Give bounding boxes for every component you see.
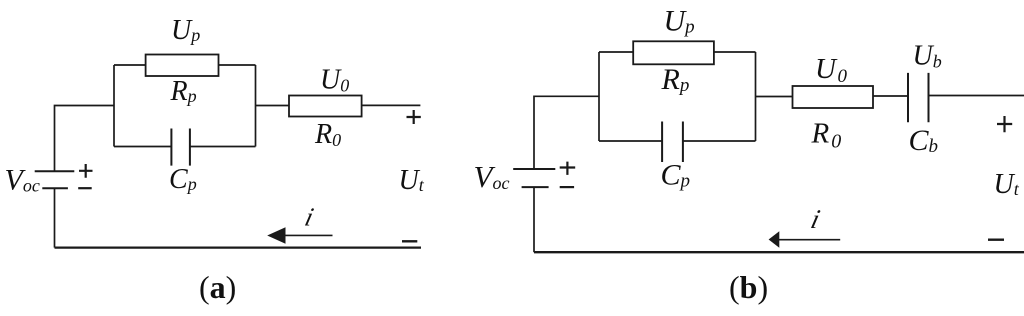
label Ut (a) bbox=[399, 165, 425, 196]
label Up (b) bbox=[664, 4, 695, 37]
label Cp (a) bbox=[169, 164, 197, 195]
wire: R0 to positive terminal (a) bbox=[362, 104, 421, 106]
label Rp (b) bbox=[661, 63, 690, 96]
capacitor Cp (a) bbox=[171, 129, 190, 166]
svg-text:Ut: Ut bbox=[399, 165, 425, 196]
svg-text:Voc: Voc bbox=[474, 159, 510, 194]
battery minus sign (b) bbox=[560, 186, 574, 188]
svg-text:Cp: Cp bbox=[169, 164, 197, 195]
bottom rail wire (a) bbox=[55, 247, 422, 249]
wire: battery top lead to node (b) bbox=[534, 96, 599, 169]
RC block right vertical wire (b) bbox=[755, 52, 757, 141]
svg-text:(a): (a) bbox=[199, 269, 236, 305]
wire: R0 to Cb (b) bbox=[873, 95, 908, 97]
label i (b) bbox=[808, 204, 823, 234]
bottom rail wire (b) bbox=[534, 251, 1024, 253]
terminal plus sign (b) bbox=[997, 116, 1012, 132]
svg-text:U0: U0 bbox=[815, 53, 847, 87]
label Cb (b) bbox=[909, 124, 939, 157]
battery plus sign (a) bbox=[79, 164, 93, 178]
battery plus sign (b) bbox=[560, 162, 576, 175]
label Voc (b) bbox=[474, 159, 510, 194]
svg-text:Cp: Cp bbox=[661, 159, 691, 192]
svg-text:Ub: Ub bbox=[913, 40, 942, 71]
label U0 (b) bbox=[815, 53, 847, 87]
svg-text:R0: R0 bbox=[811, 118, 842, 153]
label Rp (a) bbox=[170, 76, 197, 107]
svg-text:U0: U0 bbox=[320, 65, 349, 96]
label U0 (a) bbox=[320, 65, 349, 96]
svg-text:Voc: Voc bbox=[5, 163, 40, 196]
label R0 (b) bbox=[811, 118, 842, 153]
voltage source Voc battery plates bbox=[35, 171, 75, 188]
voltage source Voc battery plates (b) bbox=[513, 169, 555, 187]
label Up (a) bbox=[171, 15, 200, 46]
resistor Rp (a) bbox=[146, 55, 219, 77]
wire: battery bottom lead bbox=[54, 188, 56, 247]
battery minus sign (a) bbox=[78, 187, 92, 189]
terminal minus sign (a) bbox=[402, 240, 417, 242]
svg-text:Rp: Rp bbox=[661, 63, 690, 96]
caption (a) bbox=[199, 269, 236, 305]
wire: block to R0 (a) bbox=[256, 105, 290, 107]
svg-text:(b): (b) bbox=[729, 269, 768, 305]
capacitor Cb (b) bbox=[908, 73, 929, 122]
svg-text:Up: Up bbox=[664, 4, 695, 37]
label Ut (b) bbox=[994, 169, 1020, 200]
RC block bottom rail wires (b) bbox=[599, 140, 756, 142]
svg-text:Rp: Rp bbox=[170, 76, 197, 107]
capacitor Cp (b) bbox=[662, 122, 683, 163]
current arrow i (b) bbox=[769, 231, 841, 248]
svg-text:Ut: Ut bbox=[994, 169, 1020, 200]
label Voc (a) bbox=[5, 163, 40, 196]
wire: block to R0 (b) bbox=[756, 96, 793, 98]
current arrow i (a) bbox=[267, 227, 332, 244]
RC block left vertical wire (a) bbox=[113, 65, 115, 147]
terminal minus sign (b) bbox=[988, 238, 1004, 240]
resistor R0 (b) bbox=[793, 86, 874, 108]
RC block right vertical wire (a) bbox=[255, 65, 257, 147]
label Cp (b) bbox=[661, 159, 691, 192]
svg-text:Up: Up bbox=[171, 15, 200, 46]
wire: battery top lead to node bbox=[55, 106, 115, 172]
RC block top rail wires (a) bbox=[114, 64, 256, 66]
svg-text:Cb: Cb bbox=[909, 124, 939, 157]
RC block left vertical wire (b) bbox=[598, 52, 600, 141]
resistor R0 (a) bbox=[289, 96, 362, 117]
label i (a) bbox=[302, 202, 317, 232]
label R0 (a) bbox=[314, 119, 341, 150]
RC block bottom rail wires (a) bbox=[114, 146, 256, 148]
wire: battery bottom lead (b) bbox=[533, 187, 535, 252]
wire: Cb to positive terminal (b) bbox=[929, 95, 1024, 97]
resistor Rp (b) bbox=[633, 41, 714, 64]
terminal plus sign (a) bbox=[407, 110, 421, 124]
label Ub (b) bbox=[913, 40, 942, 71]
svg-text:R0: R0 bbox=[314, 119, 341, 150]
caption (b) bbox=[729, 269, 768, 305]
svg-text:i: i bbox=[808, 204, 823, 234]
svg-text:i: i bbox=[302, 202, 317, 232]
RC block top rail wires (b) bbox=[599, 51, 756, 53]
